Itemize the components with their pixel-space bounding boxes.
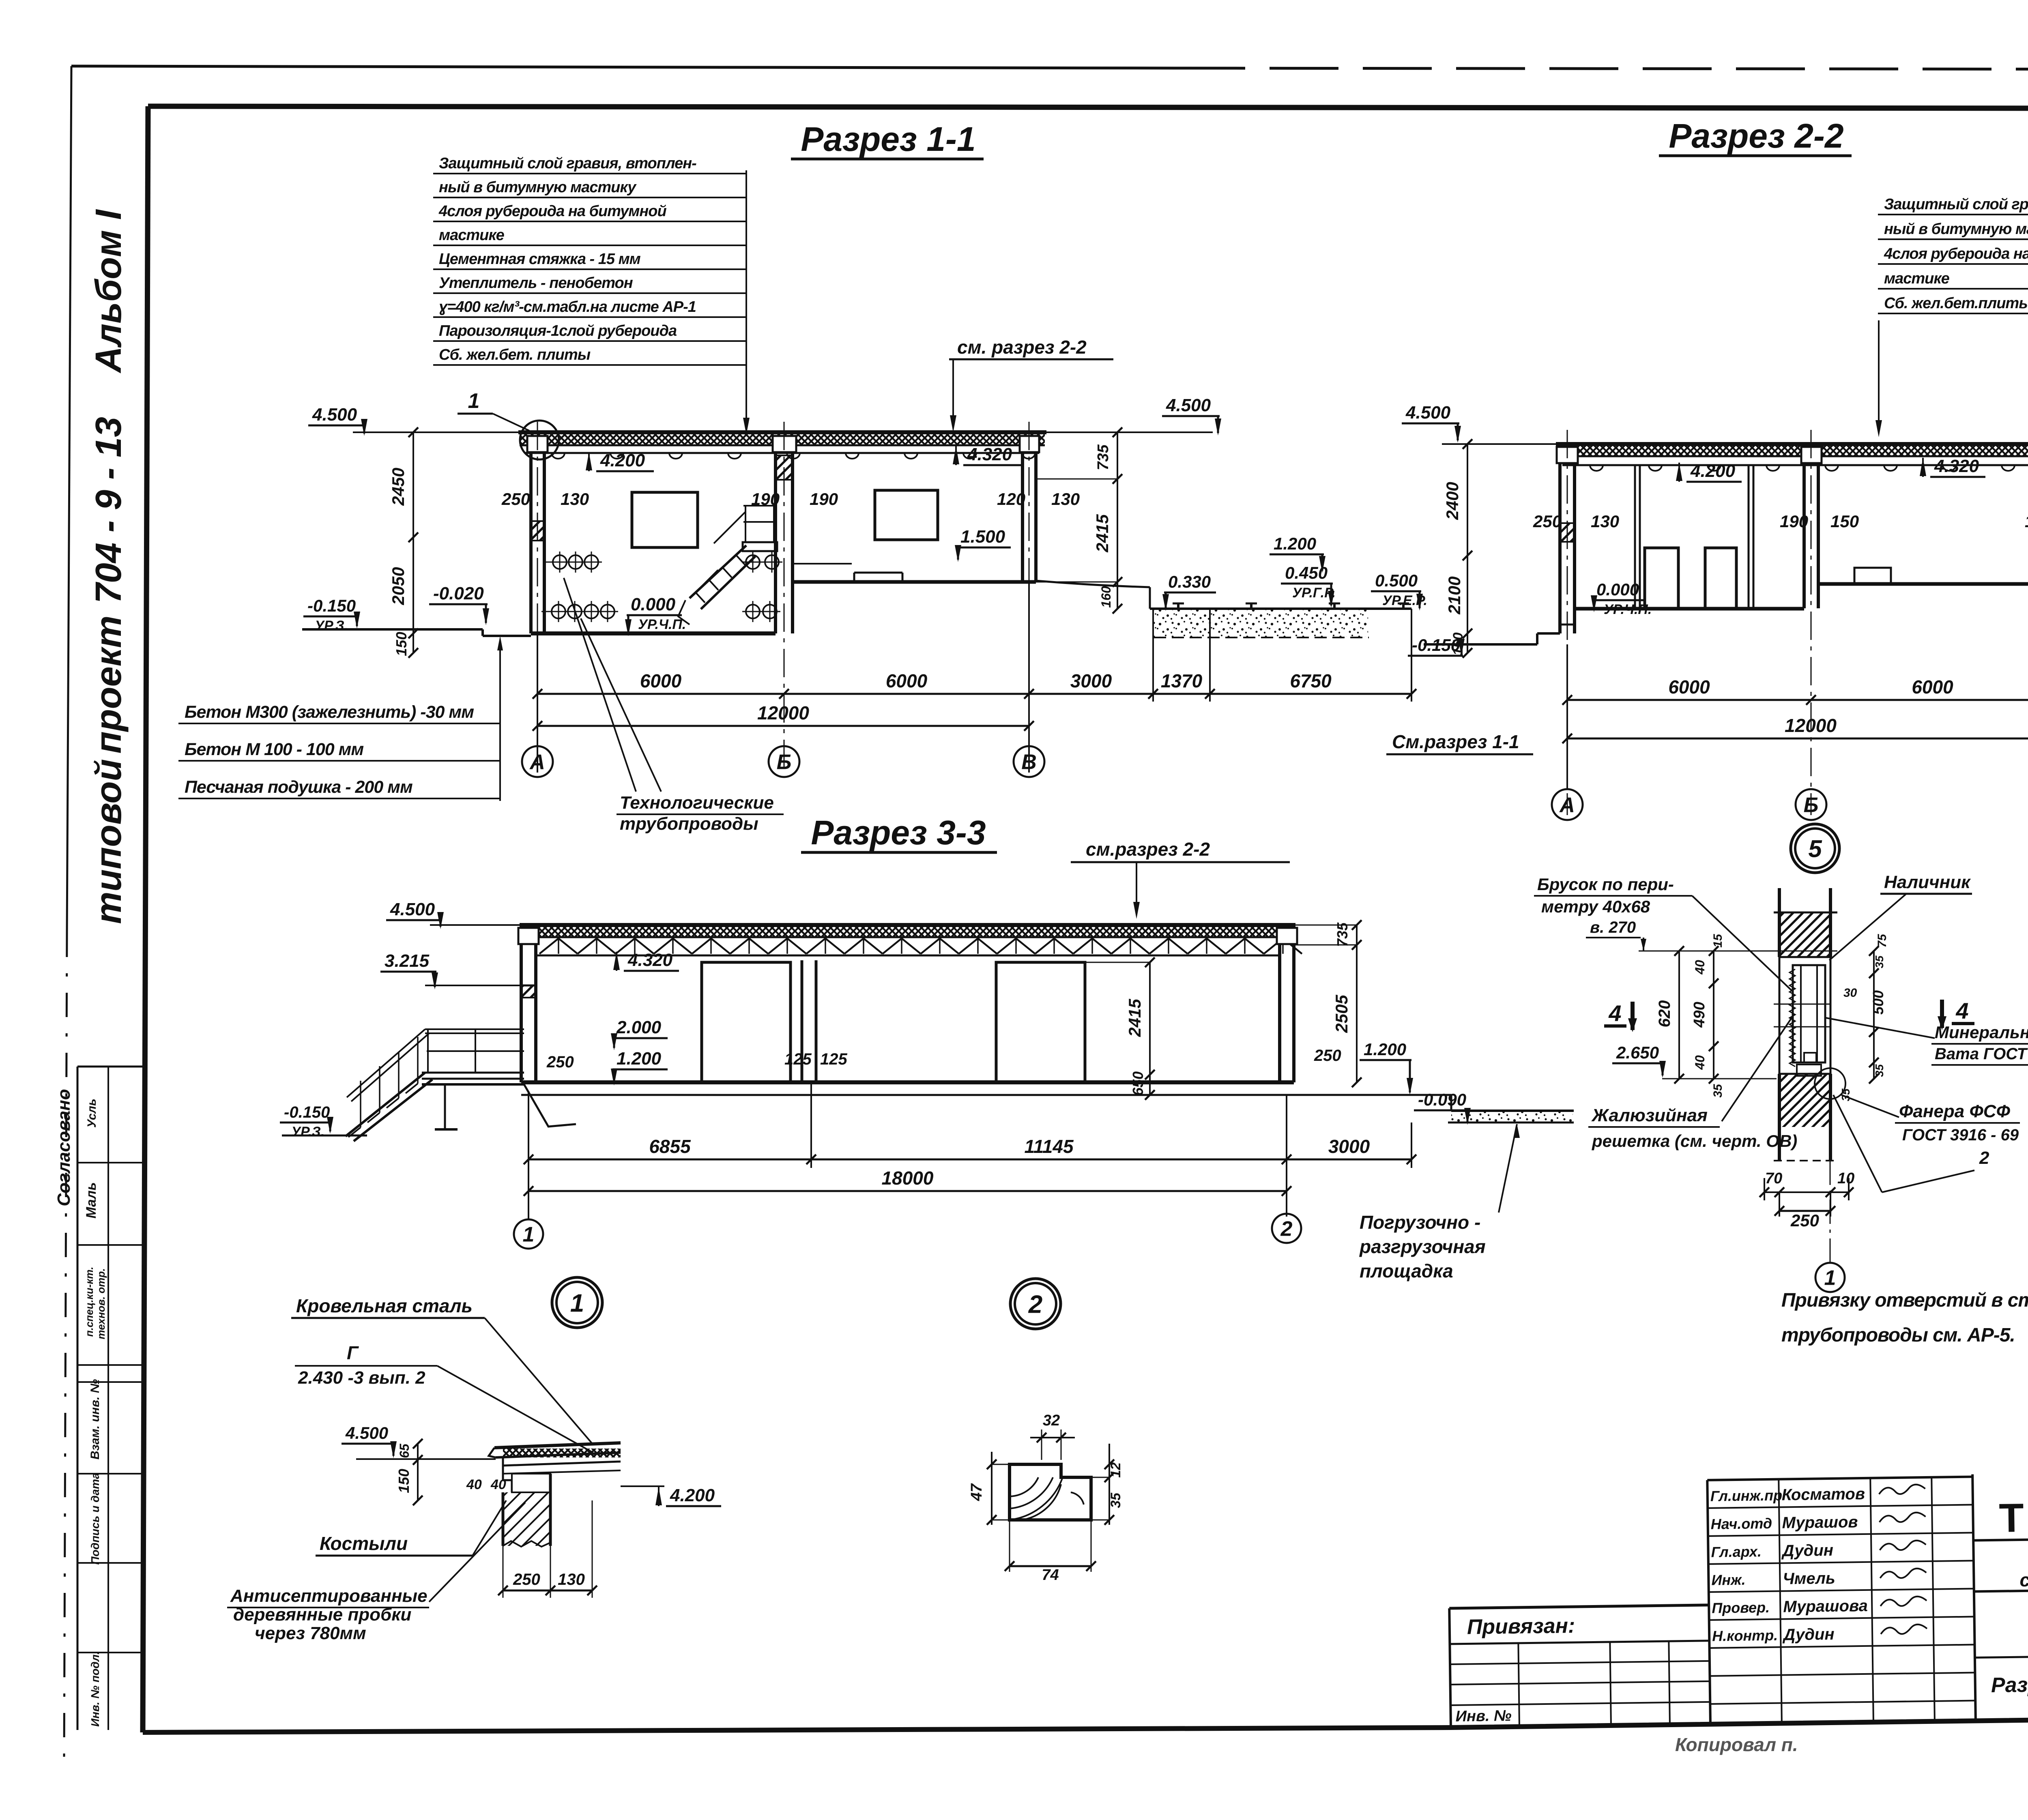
svg-text:Чмель: Чмель	[1783, 1569, 1835, 1588]
svg-text:Дудин: Дудин	[1782, 1625, 1835, 1644]
svg-text:1.500: 1.500	[960, 527, 1005, 547]
svg-text:площадка: площадка	[1360, 1260, 1453, 1281]
svg-text:деревянные пробки: деревянные пробки	[233, 1605, 412, 1625]
svg-text:Фанера ФСФ: Фанера ФСФ	[1899, 1101, 2011, 1121]
svg-text:0.330: 0.330	[1168, 572, 1211, 591]
svg-text:0.000: 0.000	[1596, 580, 1639, 599]
svg-text:2100: 2100	[1445, 576, 1464, 614]
svg-text:620: 620	[1656, 1000, 1674, 1028]
svg-text:-0.150: -0.150	[307, 596, 356, 615]
svg-text:40: 40	[490, 1477, 506, 1492]
svg-text:1.200: 1.200	[617, 1049, 662, 1069]
svg-text:40: 40	[466, 1477, 482, 1492]
svg-text:3000: 3000	[1070, 670, 1112, 691]
svg-text:Подпись и дата: Подпись и дата	[89, 1473, 101, 1565]
svg-text:УР.Ч.П.: УР.Ч.П.	[638, 617, 686, 632]
svg-text:Гл.инж.пр: Гл.инж.пр	[1710, 1487, 1783, 1505]
svg-text:4.320: 4.320	[967, 444, 1012, 464]
svg-text:Наличник: Наличник	[1884, 872, 1971, 892]
svg-text:В: В	[1021, 751, 1037, 774]
svg-text:47: 47	[968, 1483, 985, 1501]
svg-text:ГОСТ 3916 - 69: ГОСТ 3916 - 69	[1902, 1126, 2019, 1144]
svg-text:Привязан:: Привязан:	[1467, 1614, 1575, 1639]
svg-text:150: 150	[395, 1469, 412, 1493]
svg-text:500: 500	[1870, 990, 1886, 1015]
svg-text:4.500: 4.500	[312, 405, 357, 425]
svg-text:120: 120	[2025, 512, 2028, 531]
svg-text:4.320: 4.320	[1934, 456, 1979, 476]
svg-text:Б: Б	[777, 751, 792, 774]
svg-text:проект: проект	[88, 616, 129, 754]
svg-text:4.500: 4.500	[1405, 403, 1451, 423]
svg-text:4.500: 4.500	[345, 1423, 388, 1442]
svg-text:ный в битумную мастику: ный в битумную мастику	[1884, 221, 2028, 238]
svg-text:Маль: Маль	[84, 1182, 99, 1218]
svg-text:4.500: 4.500	[1166, 395, 1211, 415]
svg-text:150: 150	[393, 632, 410, 656]
svg-text:4слоя рубероида на битумной: 4слоя рубероида на битумной	[438, 203, 666, 220]
svg-text:2450: 2450	[389, 468, 408, 506]
svg-text:-0.150: -0.150	[284, 1103, 330, 1121]
svg-text:через 780мм: через 780мм	[255, 1623, 366, 1643]
svg-text:Инж.: Инж.	[1711, 1571, 1746, 1588]
svg-text:Вата ГОСТ 4640-76: Вата ГОСТ 4640-76	[1935, 1045, 2028, 1063]
svg-text:См.разрез 1-1: См.разрез 1-1	[1392, 731, 1519, 752]
svg-text:Песчаная подушка - 200 мм: Песчаная подушка - 200 мм	[185, 777, 412, 797]
svg-text:Копировал п.: Копировал п.	[1675, 1734, 1798, 1755]
svg-text:65: 65	[397, 1443, 412, 1458]
svg-text:Кровельная сталь: Кровельная сталь	[296, 1295, 473, 1316]
svg-text:0.500: 0.500	[1375, 571, 1418, 590]
svg-text:4: 4	[1955, 998, 1968, 1024]
svg-text:2: 2	[1979, 1148, 1989, 1168]
svg-text:6000: 6000	[640, 670, 682, 691]
svg-text:130: 130	[1591, 512, 1619, 531]
svg-text:Инв. №: Инв. №	[1455, 1707, 1511, 1725]
svg-text:1: 1	[570, 1289, 584, 1317]
svg-text:Взам. инв. №: Взам. инв. №	[88, 1379, 102, 1459]
svg-text:ный в битумную мастику: ный в битумную мастику	[439, 179, 637, 196]
svg-text:Разрез 2-2: Разрез 2-2	[1669, 117, 1843, 155]
svg-text:Косматов: Косматов	[1781, 1485, 1865, 1504]
svg-text:2400: 2400	[1443, 482, 1462, 520]
svg-text:Гл.арх.: Гл.арх.	[1711, 1543, 1762, 1560]
svg-text:Инв. № подл.: Инв. № подл.	[89, 1651, 101, 1727]
svg-text:УР.Г.Р.: УР.Г.Р.	[1292, 585, 1336, 601]
svg-text:мастике: мастике	[1884, 270, 1950, 287]
svg-text:Утеплитель - пенобетон: Утеплитель - пенобетон	[439, 275, 633, 292]
svg-text:в. 270: в. 270	[1590, 919, 1636, 936]
svg-text:2: 2	[1280, 1217, 1293, 1241]
svg-text:12: 12	[1108, 1462, 1124, 1478]
svg-text:1.200: 1.200	[1274, 534, 1316, 553]
svg-text:3000: 3000	[1328, 1136, 1370, 1157]
svg-text:-0.090: -0.090	[1418, 1090, 1466, 1109]
svg-text:250: 250	[1790, 1211, 1819, 1230]
svg-text:1: 1	[1824, 1266, 1836, 1290]
svg-text:12000: 12000	[1785, 715, 1837, 736]
svg-text:см.разрез 2-2: см.разрез 2-2	[1086, 839, 1210, 860]
svg-text:Провер.: Провер.	[1712, 1599, 1770, 1616]
svg-text:35: 35	[1711, 1084, 1725, 1098]
svg-text:1: 1	[523, 1223, 535, 1247]
svg-text:А: А	[1559, 794, 1575, 817]
svg-text:ɣ=400 кг/м³-см.табл.на листе А: ɣ=400 кг/м³-см.табл.на листе АР-1	[439, 298, 696, 315]
svg-text:190: 190	[751, 489, 780, 509]
svg-text:1370: 1370	[1161, 670, 1203, 691]
svg-text:Защитный слой гравия, втоплен-: Защитный слой гравия, втоплен-	[439, 155, 696, 172]
svg-text:2415: 2415	[1093, 514, 1112, 553]
svg-text:120: 120	[997, 489, 1025, 509]
svg-text:0.450: 0.450	[1285, 563, 1328, 582]
svg-text:разгрузочная: разгрузочная	[1359, 1236, 1486, 1257]
svg-text:10: 10	[1837, 1170, 1854, 1187]
svg-text:15: 15	[1711, 934, 1725, 948]
svg-text:УР.Ч.П.: УР.Ч.П.	[1604, 602, 1652, 617]
svg-text:метру 40х68: метру 40х68	[1541, 897, 1650, 916]
svg-text:Брусок по пери-: Брусок по пери-	[1537, 875, 1674, 894]
svg-text:1.200: 1.200	[1364, 1040, 1406, 1059]
svg-text:Г: Г	[347, 1342, 359, 1363]
svg-text:Минеральная: Минеральная	[1935, 1023, 2028, 1042]
svg-text:Согласовано: Согласовано	[54, 1089, 74, 1206]
svg-text:2: 2	[1028, 1290, 1042, 1318]
svg-text:типовой: типовой	[88, 759, 129, 924]
svg-text:Цементная стяжка - 15 мм: Цементная стяжка - 15 мм	[439, 251, 641, 268]
svg-text:3.215: 3.215	[385, 951, 430, 971]
svg-text:150: 150	[1830, 512, 1859, 531]
svg-text:4: 4	[1608, 1000, 1621, 1026]
svg-text:4.200: 4.200	[670, 1485, 715, 1505]
svg-text:4.200: 4.200	[1690, 461, 1736, 481]
svg-text:2.650: 2.650	[1616, 1043, 1659, 1062]
svg-text:6855: 6855	[649, 1136, 691, 1157]
svg-text:трубопроводы: трубопроводы	[620, 814, 758, 834]
svg-text:-0.020: -0.020	[433, 584, 484, 603]
svg-text:Разрез 3-3: Разрез 3-3	[811, 813, 986, 852]
svg-text:40: 40	[1693, 1055, 1707, 1070]
svg-text:70: 70	[1765, 1170, 1782, 1187]
svg-text:40: 40	[1693, 960, 1707, 975]
svg-text:75: 75	[1875, 934, 1889, 948]
svg-text:35: 35	[1108, 1492, 1124, 1508]
svg-text:160: 160	[1099, 586, 1113, 608]
svg-text:4.320: 4.320	[627, 950, 673, 970]
svg-text:35: 35	[1873, 1064, 1886, 1077]
svg-text:ТП 704-9-13 –АР: ТП 704-9-13 –АР	[1999, 1491, 2028, 1541]
svg-text:трубопроводы см. АР-5.: трубопроводы см. АР-5.	[1781, 1324, 2015, 1346]
svg-text:250: 250	[1314, 1047, 1341, 1065]
svg-text:Мурашова: Мурашова	[1783, 1597, 1868, 1616]
svg-text:1: 1	[468, 389, 480, 413]
svg-text:250: 250	[513, 1571, 540, 1588]
svg-text:Н.контр.: Н.контр.	[1712, 1627, 1778, 1644]
svg-text:490: 490	[1691, 1002, 1708, 1028]
svg-text:125: 125	[784, 1050, 812, 1068]
svg-text:УР.Е.Р.: УР.Е.Р.	[1382, 593, 1427, 608]
svg-text:Жалюзийная: Жалюзийная	[1591, 1105, 1708, 1125]
svg-text:УР.З.: УР.З.	[315, 618, 348, 633]
svg-text:Б: Б	[1804, 794, 1819, 817]
svg-text:Усль: Усль	[85, 1099, 99, 1128]
svg-text:технов. отр.: технов. отр.	[95, 1268, 107, 1339]
svg-text:2.000: 2.000	[616, 1017, 662, 1037]
svg-text:250: 250	[1533, 512, 1562, 531]
svg-text:18000: 18000	[882, 1168, 934, 1189]
svg-text:Мурашов: Мурашов	[1782, 1513, 1858, 1532]
svg-text:125: 125	[820, 1050, 847, 1068]
svg-text:6000: 6000	[886, 670, 928, 691]
svg-text:2415: 2415	[1125, 999, 1144, 1037]
svg-text:735: 735	[1095, 444, 1112, 470]
svg-text:150: 150	[1450, 633, 1466, 656]
svg-text:130: 130	[558, 1571, 585, 1588]
svg-text:6000: 6000	[1912, 676, 1953, 698]
svg-text:А: А	[529, 751, 545, 774]
svg-text:4слоя рубероида на битумной: 4слоя рубероида на битумной	[1884, 245, 2028, 262]
svg-text:Антисептированные: Антисептированные	[230, 1586, 428, 1606]
svg-text:Сб. жел.бет.плиты: Сб. жел.бет.плиты	[1884, 295, 2028, 312]
svg-text:130: 130	[1051, 489, 1080, 509]
svg-text:4.200: 4.200	[600, 451, 645, 470]
svg-text:Разрез 1-1: Разрез 1-1	[801, 120, 975, 158]
svg-text:35: 35	[1873, 955, 1886, 968]
svg-text:УР.З.: УР.З.	[291, 1124, 324, 1140]
svg-text:Бетон М 100 - 100 мм: Бетон М 100 - 100 мм	[185, 740, 363, 759]
svg-text:Альбом I: Альбом I	[88, 209, 129, 373]
svg-text:Дудин: Дудин	[1781, 1541, 1833, 1560]
svg-text:6750: 6750	[1290, 670, 1332, 691]
svg-text:Технологические: Технологические	[620, 793, 774, 813]
svg-text:Костыли: Костыли	[320, 1533, 408, 1554]
svg-text:Погрузочно -: Погрузочно -	[1360, 1212, 1480, 1233]
svg-text:650: 650	[1130, 1071, 1146, 1096]
svg-text:0.000: 0.000	[631, 595, 676, 614]
svg-text:6000: 6000	[1668, 676, 1710, 698]
svg-text:250: 250	[501, 489, 530, 509]
svg-text:2505: 2505	[1332, 995, 1351, 1033]
svg-text:74: 74	[1042, 1567, 1059, 1584]
svg-text:Сб. жел.бет. плиты: Сб. жел.бет. плиты	[439, 346, 591, 363]
svg-text:190: 190	[1780, 512, 1808, 531]
svg-text:250: 250	[546, 1053, 574, 1071]
svg-text:11145: 11145	[1024, 1136, 1074, 1157]
svg-text:32: 32	[1043, 1412, 1060, 1429]
svg-text:мастике: мастике	[439, 227, 505, 244]
svg-text:190: 190	[810, 489, 838, 509]
svg-text:2050: 2050	[389, 567, 408, 605]
svg-text:Бетон М300 (зажелезнить) -30 м: Бетон М300 (зажелезнить) -30 мм	[185, 702, 474, 722]
svg-text:12000: 12000	[757, 702, 809, 723]
svg-text:35: 35	[1839, 1088, 1852, 1101]
svg-text:см. разрез 2-2: см. разрез 2-2	[957, 337, 1087, 358]
svg-text:2.430 -3 вып. 2: 2.430 -3 вып. 2	[298, 1368, 425, 1388]
svg-text:130: 130	[561, 489, 589, 509]
svg-text:Защитный слой гравия, втоплен: Защитный слой гравия, втоплен	[1884, 196, 2028, 213]
svg-text:4.500: 4.500	[390, 899, 435, 919]
svg-text:735: 735	[1334, 922, 1351, 947]
svg-text:30: 30	[1843, 986, 1857, 1000]
svg-text:решетка (см. черт. ОВ): решетка (см. черт. ОВ)	[1592, 1131, 1797, 1150]
svg-text:Нач.отд: Нач.отд	[1710, 1515, 1772, 1532]
svg-text:Разрезы 1-1; 2-2; 3-3.: Разрезы 1-1; 2-2; 3-3.	[1991, 1671, 2028, 1697]
svg-text:704 - 9 - 13: 704 - 9 - 13	[88, 417, 129, 603]
svg-text:Пароизоляция-1слой рубероида: Пароизоляция-1слой рубероида	[439, 322, 677, 339]
svg-text:п.спец.ки-кт.: п.спец.ки-кт.	[83, 1267, 95, 1337]
svg-text:Привязку отверстий в стенах по: Привязку отверстий в стенах под технолог…	[1781, 1290, 2028, 1311]
svg-text:5: 5	[1808, 835, 1822, 863]
